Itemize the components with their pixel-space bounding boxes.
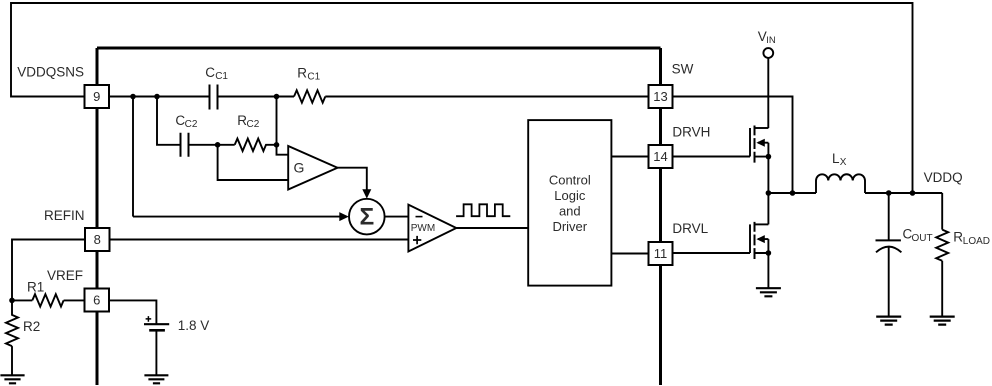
wire node D to G lower input [218, 145, 289, 180]
op-amp PWM comparator [408, 205, 456, 252]
wire arrow into summer top [362, 189, 371, 198]
wire VIN to Q1 drain [767, 58, 769, 128]
svg-text:Logic: Logic [554, 188, 586, 203]
resistor RC1 [294, 90, 325, 102]
svg-text:LOAD: LOAD [963, 236, 990, 247]
svg-text:DRVH: DRVH [672, 125, 710, 140]
battery V1 1.8V [144, 316, 169, 330]
node VDDQ dot 1 (COUT) [886, 190, 892, 196]
wire node E to G input [277, 145, 289, 155]
wire R2 to ground [11, 346, 13, 375]
wire R1 to pin6 [64, 299, 85, 301]
svg-text:C2: C2 [247, 119, 260, 130]
svg-text:C1: C1 [215, 71, 228, 82]
transistor Q1 (high side) [750, 126, 768, 163]
svg-text:G: G [294, 160, 305, 176]
svg-text:Σ: Σ [359, 204, 374, 231]
svg-text:L: L [832, 151, 840, 166]
wire IC top rail (thick) [97, 47, 661, 50]
svg-text:11: 11 [654, 246, 668, 261]
wire RC1 to pin13 [325, 96, 648, 98]
wire Q1 source to switch node [767, 157, 769, 193]
wire pin8 to left rail [12, 240, 85, 301]
wire junction to R1 [12, 299, 32, 301]
svg-text:9: 9 [93, 89, 100, 104]
wire box to pin11 [611, 253, 648, 255]
svg-text:VREF: VREF [47, 268, 83, 283]
wire PWM output [456, 227, 528, 229]
wire pin11 to Q2 gate [673, 252, 751, 254]
svg-text:X: X [840, 157, 847, 168]
wire summer to PWM [385, 216, 409, 218]
svg-text:R: R [953, 230, 963, 245]
transistor Q2 (low side) [750, 222, 768, 259]
svg-text:6: 6 [93, 293, 100, 308]
wire Q2 drain up to switch node [767, 193, 769, 224]
svg-text:14: 14 [653, 149, 667, 164]
wire RLOAD to ground [941, 261, 943, 317]
svg-text:8: 8 [94, 232, 101, 247]
square wave symbol [456, 204, 510, 216]
wire box to pin14 [611, 156, 648, 158]
wire IC right rail (thick) [659, 48, 662, 385]
wire pin14 to Q1 gate [673, 156, 751, 158]
node VDDQ dot 2 (feedback) [910, 190, 916, 196]
wire IC left rail (thick) [96, 48, 99, 385]
wire inductor to VDDQ [865, 192, 942, 194]
wire summing input [133, 216, 340, 218]
node junction D (CC2/RC2) [215, 142, 221, 148]
node junction B [154, 94, 160, 100]
wire VDDQ to RLOAD [941, 193, 943, 230]
svg-text:C: C [205, 65, 215, 80]
resistor R2 [6, 300, 18, 346]
svg-text:Control: Control [549, 173, 591, 188]
wire Q2 source to ground [767, 253, 769, 288]
node Q1 source dot [766, 154, 772, 160]
terminal VIN [763, 48, 773, 58]
pin 14 [649, 145, 673, 168]
ground (COUT) [876, 317, 901, 325]
svg-text:IN: IN [766, 35, 776, 46]
svg-text:and: and [559, 204, 581, 219]
wire CC2 to RC2 [189, 144, 235, 146]
wire pin6 to battery [109, 300, 156, 324]
pin 11 [649, 242, 673, 265]
svg-text:DRVL: DRVL [672, 221, 708, 236]
node R1/R2 junction [9, 298, 15, 304]
control logic box U2 [528, 120, 611, 286]
svg-text:Driver: Driver [552, 219, 587, 234]
summer U1 [349, 199, 385, 235]
node switch node dot 1 [766, 190, 772, 196]
svg-text:C1: C1 [307, 72, 320, 83]
svg-text:REFIN: REFIN [44, 208, 85, 223]
resistor RLOAD [936, 230, 948, 261]
svg-text:OUT: OUT [912, 233, 933, 244]
inductor LX [816, 174, 865, 193]
wire G output [338, 168, 367, 190]
svg-text:C2: C2 [185, 119, 198, 130]
wire node C to node E [276, 97, 278, 145]
node junction A [130, 94, 136, 100]
svg-text:1.8 V: 1.8 V [178, 318, 210, 333]
wire battery to ground [155, 330, 157, 375]
node Q2 source dot [766, 250, 772, 256]
resistor R1 [32, 294, 63, 306]
svg-text:SW: SW [672, 62, 694, 77]
node switch node dot 2 (SW) [790, 190, 796, 196]
svg-text:VDDQ: VDDQ [924, 170, 963, 185]
capacitor COUT [876, 193, 902, 317]
pin 13 [649, 85, 673, 108]
capacitor CC2 [181, 133, 189, 157]
svg-text:R: R [297, 66, 307, 81]
wire REFIN to PWM plus [110, 239, 409, 241]
svg-text:VDDQSNS: VDDQSNS [17, 64, 84, 79]
wire VDDQ feedback loop (top border) [11, 3, 913, 193]
svg-text:13: 13 [653, 89, 667, 104]
op-amp G [288, 146, 337, 190]
ground (battery) [144, 375, 168, 383]
wire switch node to inductor [768, 192, 816, 194]
node junction C (CC1/RC1) [274, 94, 280, 100]
pin 9 [85, 85, 110, 108]
capacitor CC1 [210, 85, 218, 110]
pin 6 [85, 289, 110, 312]
svg-text:PWM: PWM [411, 223, 435, 234]
wire arrow into summer left [339, 212, 349, 221]
wire pin9 to CC1 [109, 96, 210, 98]
resistor RC2 [235, 139, 277, 151]
wire SW pin13 to switch node [673, 97, 793, 194]
ground (Q2 source) [756, 288, 781, 296]
svg-text:R2: R2 [23, 319, 40, 334]
wire CC1 to RC1 [218, 96, 295, 98]
wire node B down to CC2 [157, 97, 181, 145]
wire node A down to summing row [132, 97, 134, 217]
pin 8 [85, 228, 110, 251]
svg-text:R1: R1 [27, 280, 44, 295]
ground (RLOAD) [930, 317, 955, 325]
ground (R2) [0, 375, 24, 383]
node junction E (RC2 right) [274, 142, 280, 148]
